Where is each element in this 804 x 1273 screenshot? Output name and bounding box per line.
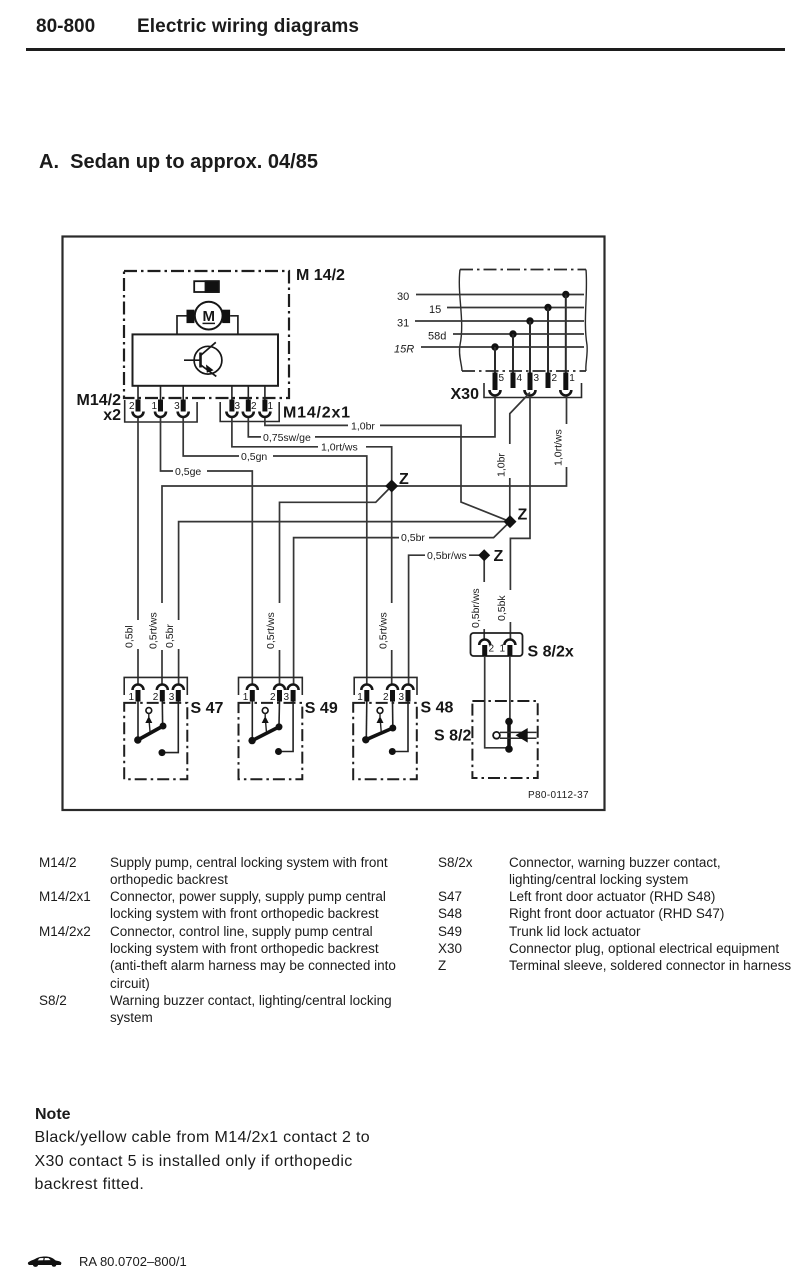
- svg-text:Z: Z: [399, 471, 409, 488]
- svg-text:0,5rt/ws: 0,5rt/ws: [378, 612, 390, 649]
- terminal 15R line: [394, 343, 584, 373]
- svg-text:1: 1: [500, 644, 506, 655]
- splice Z3: [478, 548, 503, 565]
- wire 1,0rt/ws : M14/2x1 pin3 to splice Z1: [232, 418, 392, 485]
- svg-text:S 47: S 47: [191, 700, 224, 717]
- svg-text:4: 4: [517, 373, 523, 384]
- S47 fixed contact: [164, 702, 178, 753]
- svg-text:1: 1: [569, 373, 575, 384]
- svg-text:0,5rt/ws: 0,5rt/ws: [265, 612, 277, 649]
- svg-text:2: 2: [552, 373, 558, 384]
- wire size label 1,0rt/ws: [318, 441, 366, 454]
- svg-text:58d: 58d: [428, 331, 446, 343]
- label M14/2 x2: [77, 392, 122, 424]
- connector S8/2x: [471, 633, 523, 656]
- svg-text:0,5br: 0,5br: [401, 532, 425, 544]
- svg-text:S 49: S 49: [305, 700, 338, 717]
- transistor symbol: [184, 342, 222, 376]
- wire size label 0,5br/ws S8/2x (vertical): [470, 582, 489, 629]
- wire 1,0br : X30 pin3 to splice Z2: [510, 393, 530, 518]
- terminal 15 line: [429, 304, 584, 373]
- wire 0,5br/ws : splice Z3 to S48 pin3: [409, 555, 485, 684]
- wire S8/2x pin2 into S8/2: [485, 656, 506, 748]
- svg-text:0,5br: 0,5br: [164, 624, 176, 648]
- wire size label 0,5br/ws (horizontal): [425, 549, 469, 562]
- svg-text:S 8/2: S 8/2: [434, 728, 471, 745]
- wire 0,5rt/ws : splice Z1 to S47 pin2: [162, 486, 392, 685]
- wire 0,5ge : M14/2x2 pin1 to S49 pin1: [161, 418, 253, 685]
- svg-text:1,0br: 1,0br: [351, 421, 375, 433]
- door actuator S48: [353, 677, 417, 779]
- svg-text:M 14/2: M 14/2: [296, 267, 345, 284]
- wire 1,0br : M14/2x1 pin1 to splice Z2: [265, 418, 510, 522]
- svg-text:Z: Z: [494, 548, 504, 565]
- svg-text:1,0rt/ws: 1,0rt/ws: [321, 442, 358, 454]
- svg-text:Z: Z: [518, 507, 528, 524]
- svg-text:P80-0112-37: P80-0112-37: [528, 790, 589, 801]
- svg-text:0,5bl: 0,5bl: [124, 625, 136, 648]
- wire 0,5rt/ws : splice Z1 to S48 pin2: [391, 486, 393, 685]
- splice Z2: [504, 507, 528, 529]
- section title: [39, 151, 318, 174]
- wire 0,75sw/ge : M14/2x1 pin2 to X30 pin5: [248, 397, 495, 437]
- svg-text:0,5br/ws: 0,5br/ws: [470, 588, 482, 628]
- svg-text:1,0rt/ws: 1,0rt/ws: [553, 429, 565, 466]
- svg-text:M14/2x1: M14/2x1: [283, 405, 351, 422]
- wire size label 1,0rt/ws (vertical): [553, 424, 573, 467]
- wire 0,5gn : M14/2x2 pin3 to S48 pin1: [183, 418, 367, 685]
- wire size label 1,0br (vertical): [496, 444, 516, 478]
- wire size label 0,5gn: [239, 450, 273, 463]
- svg-text:0,5ge: 0,5ge: [175, 466, 201, 478]
- wire 0,5br : X30 pin3 to S8/2x pin1: [510, 396, 530, 640]
- wire 0,5bl : M14/2x2 pin2 to S47 pin1: [137, 418, 139, 685]
- legend left column labels: [39, 854, 91, 1010]
- svg-text:0,5gn: 0,5gn: [241, 451, 267, 463]
- wire size label 0,5ge: [173, 465, 207, 478]
- control block rectangle: [133, 334, 279, 385]
- trunk actuator S49: [239, 677, 303, 779]
- fuse element: [194, 281, 219, 292]
- svg-text:1: 1: [151, 401, 157, 412]
- S47 actuating plunger: [146, 708, 152, 714]
- svg-text:2: 2: [153, 692, 159, 703]
- terminal 58d line: [428, 330, 584, 373]
- svg-text:1: 1: [243, 692, 249, 703]
- svg-text:2: 2: [251, 401, 257, 412]
- svg-text:1: 1: [357, 692, 363, 703]
- svg-text:31: 31: [397, 318, 409, 330]
- svg-text:3: 3: [284, 692, 290, 703]
- svg-text:3: 3: [398, 692, 404, 703]
- note body: [35, 1126, 371, 1197]
- svg-text:3: 3: [235, 401, 241, 412]
- terminal 31 line: [397, 317, 584, 373]
- S47 switch lever: [137, 702, 139, 739]
- legend right column labels: [438, 854, 473, 975]
- svg-text:X30: X30: [451, 386, 480, 403]
- wire size label 0,5rt/ws S48 (vertical): [378, 603, 398, 650]
- svg-text:S 48: S 48: [421, 700, 454, 717]
- wire size label 0,5rt/ws S49 (vertical): [265, 603, 285, 650]
- svg-text:3: 3: [174, 401, 180, 412]
- wire size label 0,5br S47 (vertical): [164, 620, 184, 649]
- wire 0,5br/ws : splice Z3 to S8/2x pin2: [483, 555, 485, 640]
- splice Z1: [385, 471, 409, 493]
- svg-text:15: 15: [429, 304, 441, 316]
- wire 0,5br : splice Z2 to S49 pin3: [294, 522, 510, 685]
- wire 1,0rt/ws : splice Z1 to X30 pin1: [392, 397, 567, 487]
- connector X30: [484, 373, 582, 398]
- header rule: [26, 48, 785, 51]
- motor wires: [177, 316, 187, 335]
- svg-text:0,75sw/ge: 0,75sw/ge: [263, 432, 311, 444]
- svg-text:1: 1: [268, 401, 274, 412]
- connector M14/2x1 (right pin group): [220, 400, 279, 422]
- terminal 30 line: [397, 291, 584, 373]
- svg-text:2: 2: [270, 692, 276, 703]
- svg-text:0,5bk: 0,5bk: [496, 595, 508, 621]
- harness bus box (torn outline): [459, 270, 587, 372]
- svg-text:M: M: [202, 308, 215, 325]
- legend right column text: [509, 854, 791, 975]
- wire size label 0,5bl (vertical): [124, 620, 144, 649]
- outer frame of diagram: [63, 237, 605, 811]
- svg-text:2: 2: [129, 401, 135, 412]
- wire 0,5rt/ws : splice Z1 to S49 pin2: [280, 486, 392, 685]
- svg-text:1: 1: [128, 692, 134, 703]
- footer text: [79, 1254, 187, 1269]
- svg-text:x2: x2: [103, 407, 121, 424]
- wire size label 0,75sw/ge: [261, 431, 315, 444]
- wire size label 0,5br S8/2x (vertical): [496, 590, 515, 622]
- supply pump unit M14/2 (dash-dot enclosure): [124, 271, 289, 398]
- note heading: [35, 1106, 71, 1124]
- footer car icon: [27, 1255, 63, 1269]
- svg-text:2: 2: [383, 692, 389, 703]
- svg-text:3: 3: [534, 373, 540, 384]
- legend left column text: [110, 854, 396, 1027]
- svg-text:3: 3: [169, 692, 175, 703]
- svg-text:5: 5: [499, 373, 505, 384]
- door actuator S47: [124, 677, 187, 779]
- wire 0,5br : splice Z2 to S47 pin3: [179, 522, 510, 685]
- connector M14/2x2 (left pin group): [125, 400, 197, 423]
- S8/2 contact element: [493, 718, 536, 753]
- wire size label 1,0br: [348, 420, 380, 433]
- motor M: [187, 302, 231, 330]
- pin stubs inside M14/2: [138, 386, 265, 400]
- svg-text:30: 30: [397, 291, 409, 303]
- wire S8/2x pin1 into S8/2: [509, 656, 511, 721]
- page header: [36, 16, 95, 38]
- svg-text:0,5rt/ws: 0,5rt/ws: [148, 612, 160, 649]
- svg-text:S 8/2x: S 8/2x: [528, 644, 574, 661]
- svg-text:15R: 15R: [394, 344, 414, 356]
- svg-text:0,5br/ws: 0,5br/ws: [427, 550, 467, 562]
- wire size label 0,5br (horizontal): [399, 532, 429, 545]
- wire size label 0,5rt/ws S47 (vertical): [148, 603, 168, 650]
- svg-text:1,0br: 1,0br: [496, 453, 508, 477]
- buzzer contact S8/2 (dash-dot box): [472, 701, 537, 778]
- svg-text:2: 2: [489, 644, 495, 655]
